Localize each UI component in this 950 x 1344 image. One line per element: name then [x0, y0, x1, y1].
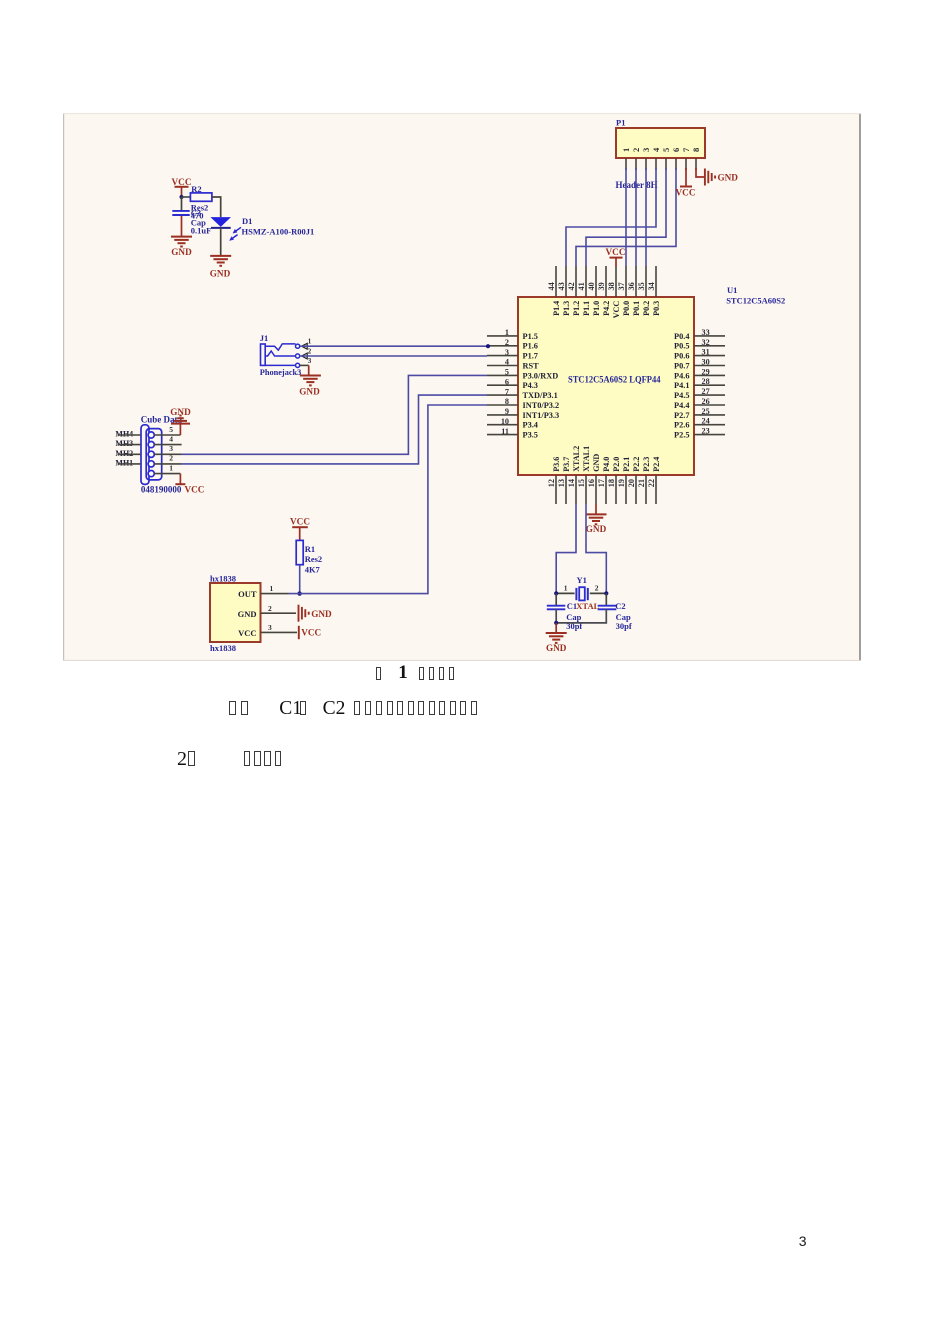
Y1 pin numbers 1 2	[564, 584, 599, 593]
svg-text:3: 3	[169, 444, 173, 453]
label XTAL	[576, 601, 599, 611]
svg-text:P1.2: P1.2	[572, 301, 581, 316]
svg-text:MH1: MH1	[115, 458, 133, 467]
page number	[799, 1233, 807, 1249]
svg-text:1: 1	[308, 337, 312, 345]
wire MH2 pin3 to U1 P3.0/RXD	[181, 375, 487, 454]
svg-text:Res2: Res2	[305, 554, 322, 564]
U1 bottom pin names	[552, 446, 661, 472]
svg-text:33: 33	[702, 328, 710, 337]
U1 right pin numbers 33-23	[702, 328, 710, 436]
svg-text:hx1838: hx1838	[210, 643, 236, 653]
wire pin3 stub	[154, 453, 181, 455]
wire pin2 stub	[154, 463, 181, 465]
svg-text:28: 28	[702, 377, 710, 386]
svg-text:P3.7: P3.7	[562, 457, 571, 472]
svg-text:39: 39	[597, 282, 606, 290]
wire pin1 to VCC	[154, 474, 180, 485]
svg-text:18: 18	[607, 479, 616, 487]
svg-text:3: 3	[308, 357, 312, 365]
svg-text:P0.2: P0.2	[642, 301, 651, 316]
svg-text:5: 5	[661, 148, 671, 152]
svg-text:INT0/P3.2: INT0/P3.2	[523, 401, 560, 410]
svg-text:XTAL2: XTAL2	[572, 446, 581, 472]
power ground (hx1838 pin2)	[299, 605, 332, 622]
IC hx1838 IR receiver	[210, 574, 261, 653]
wire J1.3 to ground	[300, 365, 309, 375]
wire rail to ground	[555, 623, 557, 633]
svg-text:P2.6: P2.6	[674, 421, 689, 430]
U1 top pin stubs	[556, 266, 656, 297]
svg-text:2: 2	[631, 148, 641, 152]
wire J1.2 to U1 P1.7	[300, 355, 487, 357]
U1 right pin stubs	[694, 336, 725, 435]
label Header 8H	[616, 180, 658, 190]
svg-text:Phonejack3: Phonejack3	[260, 368, 302, 377]
svg-text:P0.3: P0.3	[652, 301, 661, 316]
ground (Cube Data pin5)	[170, 407, 191, 424]
resistor R2	[190, 184, 212, 201]
svg-text:MH2: MH2	[115, 449, 133, 458]
svg-text:37: 37	[617, 282, 626, 290]
capacitor C3	[172, 211, 189, 215]
svg-text:19: 19	[617, 479, 626, 487]
svg-text:P3.0/RXD: P3.0/RXD	[523, 371, 559, 380]
ground (J1)	[299, 376, 321, 397]
svg-text:40: 40	[587, 282, 596, 290]
svg-text:2: 2	[595, 584, 599, 593]
svg-text:GND: GND	[238, 609, 257, 619]
svg-text:P2.2: P2.2	[632, 457, 641, 472]
power ground (P1 pin8)	[705, 169, 738, 186]
svg-text:20: 20	[627, 479, 636, 487]
text line: C1 C2 note (tofu glyphs)	[0, 0, 950, 1]
svg-text:P1.4: P1.4	[552, 301, 561, 316]
wire P1.4 to U1 P1.3	[566, 168, 656, 266]
wire J1.1 to U1 P1.6	[300, 345, 487, 347]
Cube Data pin numbers 5-1	[169, 425, 173, 473]
svg-text:P0.0: P0.0	[622, 301, 631, 316]
caption: figure 1 (tofu glyphs)	[0, 0, 950, 1]
svg-text:MH3: MH3	[115, 439, 133, 448]
svg-text:P0.6: P0.6	[674, 352, 689, 361]
svg-text:VCC: VCC	[185, 484, 205, 494]
svg-text:38: 38	[607, 282, 616, 290]
power VCC (LED branch)	[172, 177, 192, 197]
wire R2 right to LED	[212, 197, 221, 217]
svg-text:1: 1	[564, 584, 568, 593]
svg-text:9: 9	[505, 407, 509, 416]
svg-text:P4.5: P4.5	[674, 391, 689, 400]
power VCC (Cube Data pin1)	[175, 484, 204, 494]
svg-text:VCC: VCC	[290, 517, 310, 527]
wire bottom rail C1-C2	[556, 609, 606, 623]
svg-text:3: 3	[641, 148, 651, 152]
svg-text:6: 6	[505, 377, 509, 386]
wire MH3 stub	[118, 444, 142, 446]
U1 top pin numbers 44-34	[547, 282, 656, 290]
crystal Y1	[556, 575, 606, 600]
wire pin4 stub	[154, 444, 181, 446]
svg-text:1: 1	[169, 463, 173, 472]
svg-text:R2: R2	[191, 184, 201, 194]
svg-text:P4.3: P4.3	[523, 381, 538, 390]
wire OUT to U1 INT0/P3.2	[289, 405, 488, 594]
svg-text:P3.4: P3.4	[523, 421, 538, 430]
svg-text:3: 3	[268, 623, 272, 632]
capacitor C2	[598, 601, 632, 631]
svg-text:GND: GND	[299, 386, 320, 396]
node junction crystal right	[604, 591, 608, 595]
svg-text:GND: GND	[311, 609, 332, 619]
wire C3 to ground	[181, 216, 183, 237]
svg-text:P0.7: P0.7	[674, 361, 689, 370]
svg-text:P1.5: P1.5	[523, 332, 538, 341]
svg-text:P2.4: P2.4	[652, 457, 661, 472]
connector MH Cube Data (D-sub 5)	[141, 425, 162, 485]
value labels Res2 / C3 / 470 / Cap / 0.1uF	[191, 203, 212, 236]
wire P1.8 to GND	[696, 168, 705, 177]
svg-text:16: 16	[587, 479, 596, 487]
svg-text:P4.2: P4.2	[602, 301, 611, 316]
svg-text:VCC: VCC	[606, 247, 626, 257]
svg-text:P2.7: P2.7	[674, 411, 689, 420]
svg-text:GND: GND	[718, 173, 739, 183]
IC U1 STC12C5A60S2	[518, 285, 785, 475]
label 048190000	[141, 485, 182, 495]
ground (D1)	[210, 256, 231, 278]
ground (U1 GND pin)	[586, 514, 607, 533]
svg-text:P4.6: P4.6	[674, 371, 689, 380]
svg-text:8: 8	[691, 148, 701, 152]
wire MH1 stub	[118, 463, 142, 465]
svg-text:1: 1	[621, 148, 631, 152]
svg-text:P2.3: P2.3	[642, 457, 651, 472]
svg-text:VCC: VCC	[301, 627, 321, 637]
svg-text:1: 1	[505, 328, 509, 337]
node junction at U1 P1.6	[486, 344, 490, 348]
svg-text:D1: D1	[242, 216, 252, 226]
svg-text:P1.7: P1.7	[523, 352, 538, 361]
J1 pin numbers 1-3	[308, 337, 312, 365]
diode D1 LED	[210, 216, 314, 241]
svg-text:P0.5: P0.5	[674, 342, 689, 351]
svg-text:VCC: VCC	[172, 177, 192, 187]
svg-text:R1: R1	[305, 544, 315, 554]
hx1838 pin numbers 1-3	[268, 584, 274, 632]
svg-text:30: 30	[702, 358, 710, 367]
svg-text:HSMZ-A100-R00J1: HSMZ-A100-R00J1	[242, 226, 315, 236]
power VCC (P1 pin7)	[676, 187, 696, 198]
wire R2 left lead	[182, 196, 191, 198]
svg-text:4: 4	[505, 358, 509, 367]
text line: section 2 (tofu glyphs)	[0, 0, 950, 1]
svg-text:2: 2	[505, 338, 509, 347]
svg-text:26: 26	[702, 397, 710, 406]
wire P1.5 to U1 P1.1	[586, 168, 666, 266]
svg-text:12: 12	[547, 479, 556, 487]
svg-text:TXD/P3.1: TXD/P3.1	[523, 391, 558, 400]
wire cap C3 top lead	[181, 197, 183, 210]
svg-text:RST: RST	[523, 361, 540, 370]
svg-text:GND: GND	[210, 268, 231, 278]
hx1838 pin stubs	[261, 594, 298, 633]
svg-text:41: 41	[577, 282, 586, 290]
svg-text:P1.1: P1.1	[582, 301, 591, 316]
svg-text:23: 23	[702, 427, 710, 436]
svg-text:44: 44	[547, 282, 556, 290]
node junction bottom rail	[554, 621, 558, 625]
wire P1.7 to VCC	[685, 168, 687, 187]
svg-text:P0.4: P0.4	[674, 332, 689, 341]
svg-text:30pf: 30pf	[616, 621, 632, 631]
svg-text:P1: P1	[616, 118, 625, 128]
U1 top pin names	[552, 301, 661, 319]
wire P1.1 to U1 P0.0	[625, 168, 627, 266]
svg-text:15: 15	[577, 479, 586, 487]
U1 right pin names	[674, 332, 689, 440]
svg-text:1: 1	[270, 584, 274, 593]
wire MH2 stub	[118, 453, 142, 455]
svg-text:32: 32	[702, 338, 710, 347]
svg-text:P2.5: P2.5	[674, 431, 689, 440]
net labels MH4 MH3 MH2 MH1	[115, 430, 133, 468]
connector J1 Phonejack3	[260, 333, 307, 377]
svg-text:C1: C1	[567, 601, 577, 611]
wire U1 XTAL1 to crystal right node	[586, 504, 606, 593]
wire node to C1	[555, 593, 557, 605]
svg-text:GND: GND	[546, 643, 567, 653]
wire R1 bottom to OUT node	[299, 565, 301, 594]
svg-text:2: 2	[308, 347, 312, 355]
U1 left pin names	[523, 332, 560, 440]
U1 bottom pin numbers 12-22	[547, 479, 656, 487]
svg-text:36: 36	[627, 282, 636, 290]
svg-text:11: 11	[501, 427, 509, 436]
wire MH1 pin2 to U1 TXD/P3.1	[181, 395, 487, 464]
svg-text:10: 10	[501, 417, 509, 426]
svg-text:13: 13	[557, 479, 566, 487]
svg-text:14: 14	[567, 479, 576, 487]
node junction crystal left	[554, 591, 558, 595]
svg-text:7: 7	[505, 387, 509, 396]
svg-text:5: 5	[169, 425, 173, 434]
svg-text:3: 3	[505, 348, 509, 357]
wire U1 pin16 to GND	[595, 504, 597, 514]
svg-text:P0.1: P0.1	[632, 301, 641, 316]
svg-text:P3.6: P3.6	[552, 457, 561, 472]
svg-text:VCC: VCC	[238, 628, 256, 638]
wire LED cathode to ground	[220, 228, 222, 256]
P1 pin stubs	[626, 158, 696, 170]
svg-text:6: 6	[671, 148, 681, 152]
wire P1.2 to U1 P0.1	[635, 168, 637, 266]
svg-text:43: 43	[557, 282, 566, 290]
wire U1 XTAL2 to crystal left node	[556, 504, 576, 593]
svg-text:29: 29	[702, 367, 710, 376]
svg-text:25: 25	[702, 407, 710, 416]
U1 bottom pin stubs	[556, 475, 656, 504]
node junction VCC/R2/C3	[180, 195, 184, 199]
svg-text:P1.0: P1.0	[592, 301, 601, 316]
svg-text:048190000: 048190000	[141, 485, 182, 495]
wire P1.6 to U1 P1.2	[576, 168, 676, 266]
svg-text:8: 8	[505, 397, 509, 406]
svg-text:5: 5	[505, 368, 509, 377]
P1 pin numbers 1-8	[621, 147, 701, 152]
power VCC (hx1838 pin3)	[299, 626, 321, 639]
svg-text:P4.0: P4.0	[602, 457, 611, 472]
power VCC (R1 pullup)	[290, 517, 310, 541]
svg-text:22: 22	[647, 479, 656, 487]
capacitor C1	[547, 601, 583, 631]
ground (crystal)	[546, 633, 567, 653]
U1 left pin numbers 1-11	[501, 328, 509, 436]
svg-text:42: 42	[567, 282, 576, 290]
node junction OUT/R1	[297, 591, 301, 595]
svg-text:21: 21	[637, 479, 646, 487]
svg-text:31: 31	[702, 348, 710, 357]
svg-text:P3.5: P3.5	[523, 431, 538, 440]
ground (C3)	[171, 237, 192, 258]
svg-text:C2: C2	[615, 601, 625, 611]
svg-text:P4.4: P4.4	[674, 401, 689, 410]
wire node to C2	[605, 593, 607, 605]
wire MH4 stub	[118, 434, 142, 436]
svg-text:35: 35	[637, 282, 646, 290]
wire pin5 to ground	[154, 424, 180, 435]
svg-text:STC12C5A60S2 LQFP44: STC12C5A60S2 LQFP44	[568, 374, 661, 384]
svg-text:GND: GND	[170, 407, 191, 417]
svg-text:OUT: OUT	[238, 589, 257, 599]
svg-text:U1: U1	[727, 285, 737, 295]
resistor R1	[296, 540, 322, 574]
svg-text:2: 2	[268, 604, 272, 613]
svg-text:P1.6: P1.6	[523, 342, 538, 351]
svg-text:4K7: 4K7	[305, 564, 321, 574]
wire P1.3 to U1 P0.2	[645, 168, 647, 266]
svg-text:XTAL: XTAL	[576, 601, 599, 611]
label Cube Data	[141, 414, 183, 424]
svg-text:P2.1: P2.1	[622, 457, 631, 472]
svg-text:GND: GND	[586, 524, 607, 534]
svg-text:24: 24	[702, 417, 710, 426]
svg-text:Y1: Y1	[577, 575, 587, 585]
svg-text:INT1/P3.3: INT1/P3.3	[523, 411, 560, 420]
svg-text:J1: J1	[260, 333, 269, 343]
svg-text:17: 17	[597, 479, 606, 487]
svg-text:P4.1: P4.1	[674, 381, 689, 390]
svg-text:0.1uF: 0.1uF	[191, 226, 212, 236]
svg-text:GND: GND	[171, 247, 192, 257]
connector P1 header	[616, 118, 705, 159]
U1 left pin stubs	[487, 336, 518, 435]
svg-text:MH4: MH4	[115, 430, 133, 439]
svg-text:VCC: VCC	[612, 301, 621, 319]
svg-text:GND: GND	[592, 454, 601, 472]
svg-text:P2.0: P2.0	[612, 457, 621, 472]
svg-text:XTAL1: XTAL1	[582, 446, 591, 472]
svg-text:34: 34	[647, 282, 656, 290]
svg-text:P1.3: P1.3	[562, 301, 571, 316]
power VCC (U1 pin38)	[606, 247, 626, 267]
svg-text:STC12C5A60S2: STC12C5A60S2	[726, 296, 785, 306]
svg-text:VCC: VCC	[676, 187, 696, 197]
svg-text:27: 27	[702, 387, 710, 396]
schematic sheet background	[63, 113, 861, 661]
